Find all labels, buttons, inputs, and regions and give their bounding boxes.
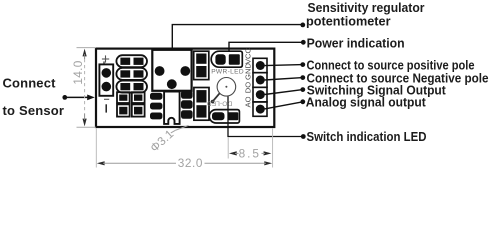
svg-text:Power indication: Power indication	[307, 36, 405, 51]
dimension 14.0	[71, 48, 96, 128]
header P1 pin squares	[253, 58, 267, 116]
potentiometer RP1 body	[152, 50, 191, 91]
svg-text:AO: AO	[244, 96, 253, 107]
svg-text:potentiometer: potentiometer	[306, 14, 391, 29]
square pad top-left	[117, 92, 130, 103]
callout wire pin1	[265, 65, 303, 66]
svg-text:PWR-LED: PWR-LED	[211, 69, 244, 76]
potentiometer pin right	[180, 66, 190, 76]
potentiometer pin left	[155, 66, 165, 76]
dimension 32.0	[96, 129, 272, 170]
header pin 1 VCC	[256, 61, 265, 70]
callout wire potentiometer	[172, 25, 302, 50]
diode footprint D2 (lower)	[194, 88, 209, 121]
plus mark	[102, 55, 109, 62]
svg-text:32.0: 32.0	[178, 156, 203, 170]
square pad bottom-right	[132, 104, 145, 116]
header pin 2 GND	[256, 76, 265, 85]
svg-text:Connect: Connect	[3, 76, 57, 91]
svg-text:8.5: 8.5	[239, 147, 261, 161]
potentiometer pin bottom	[167, 79, 177, 89]
diode footprint D1 (upper)	[194, 51, 209, 79]
capacitor pad row 1	[116, 55, 147, 67]
svg-text:DO: DO	[244, 82, 253, 93]
square pad top-right	[132, 92, 145, 103]
svg-text:VCC: VCC	[244, 47, 253, 64]
arrow connect to sensor	[62, 95, 67, 100]
square pad bottom-left	[117, 104, 130, 116]
trimmer circle	[211, 78, 236, 104]
svg-text:GND: GND	[244, 63, 253, 80]
svg-text:14.0: 14.0	[71, 60, 85, 84]
wire stub above J1	[103, 61, 105, 64]
connector J1 (sensor input, 2-pin)	[99, 64, 113, 95]
power LED footprint	[211, 51, 242, 67]
callout wire switch LED	[228, 97, 303, 137]
dimension phi 3.1	[147, 125, 188, 155]
IC left pads	[150, 93, 162, 120]
svg-text:Sensitivity regulator: Sensitivity regulator	[308, 0, 425, 15]
capacitor pad row 3	[116, 81, 147, 93]
header pin 3 DO	[256, 90, 265, 99]
IC right pads	[181, 90, 193, 118]
switch LED footprint	[209, 110, 239, 123]
IC footprint body with notch	[164, 92, 180, 124]
callout wire pin4	[265, 102, 303, 109]
svg-text:Analog signal output: Analog signal output	[306, 94, 427, 109]
dimension 8.5	[228, 138, 271, 161]
PCB board outline	[96, 49, 274, 127]
wire stub below J1	[105, 104, 107, 112]
header pin 4 AO	[256, 105, 265, 114]
capacitor pad row 2	[116, 68, 147, 80]
callout wire power LED	[229, 42, 303, 51]
svg-text:Switch indication LED: Switch indication LED	[307, 129, 427, 144]
svg-text:to Sensor: to Sensor	[3, 103, 65, 118]
callout wire pin3	[265, 90, 303, 95]
minus mark	[104, 98, 109, 100]
callout wire pin2	[265, 78, 303, 80]
